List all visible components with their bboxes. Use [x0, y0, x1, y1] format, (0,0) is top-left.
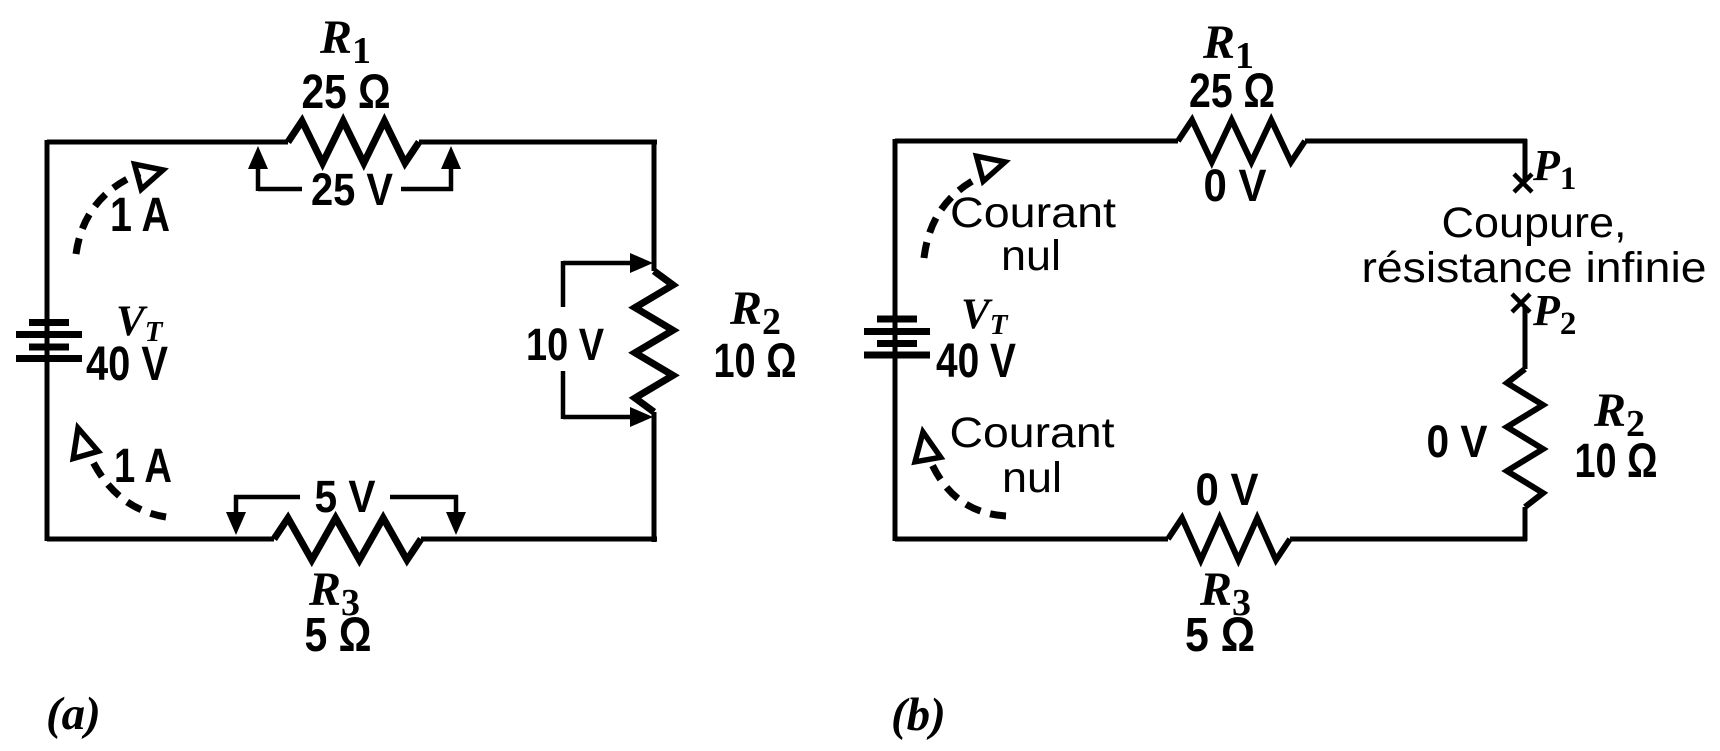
svg-text:R2: R2	[729, 282, 781, 343]
svg-text:5 Ω: 5 Ω	[305, 609, 372, 662]
svg-text:5 Ω: 5 Ω	[1185, 609, 1255, 662]
svg-text:nul: nul	[1001, 232, 1061, 280]
svg-text:1 A: 1 A	[110, 189, 170, 242]
svg-text:25 Ω: 25 Ω	[1189, 65, 1275, 118]
svg-text:(b): (b)	[891, 689, 946, 741]
svg-text:40 V: 40 V	[86, 338, 168, 391]
svg-text:Courant: Courant	[950, 409, 1115, 457]
svg-text:P1: P1	[1532, 141, 1576, 197]
svg-text:40 V: 40 V	[936, 335, 1016, 388]
svg-text:25 V: 25 V	[311, 164, 393, 215]
svg-text:1 A: 1 A	[114, 440, 172, 493]
svg-text:0 V: 0 V	[1204, 160, 1267, 211]
svg-text:P2: P2	[1532, 286, 1576, 342]
svg-text:0 V: 0 V	[1196, 464, 1259, 515]
svg-text:10 Ω: 10 Ω	[714, 335, 797, 388]
svg-text:0 V: 0 V	[1427, 416, 1488, 467]
svg-text:Coupure,: Coupure,	[1442, 199, 1627, 247]
svg-text:25 Ω: 25 Ω	[302, 66, 391, 119]
svg-text:VT: VT	[961, 291, 1009, 341]
svg-text:(a): (a)	[46, 688, 101, 740]
svg-text:R1: R1	[319, 11, 371, 72]
svg-text:Courant: Courant	[950, 189, 1116, 237]
svg-text:5 V: 5 V	[315, 471, 376, 522]
svg-text:10 Ω: 10 Ω	[1575, 435, 1658, 488]
svg-text:10 V: 10 V	[526, 319, 604, 370]
svg-text:nul: nul	[1002, 454, 1062, 502]
svg-text:résistance infinie: résistance infinie	[1362, 244, 1707, 292]
